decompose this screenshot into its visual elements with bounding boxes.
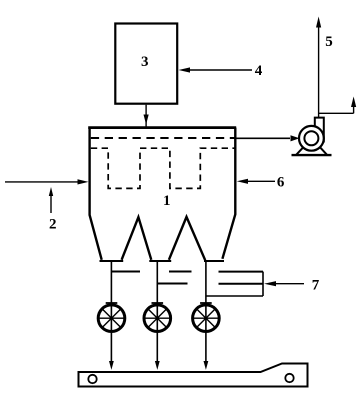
rotary valve 1 (98, 303, 125, 332)
leader arrow 7 (264, 281, 304, 286)
conveyor wheel right (285, 374, 293, 382)
box 3 (pulse control box) (115, 24, 177, 104)
conveyor wheel left (88, 375, 96, 383)
duct to 7 (rectangle) (206, 272, 263, 296)
conveyor body (79, 364, 308, 387)
rotary valve 3 (193, 303, 220, 332)
svg-text:4: 4 (255, 63, 263, 79)
leader arrow 6 (237, 179, 275, 184)
svg-text:2: 2 (49, 217, 57, 233)
wire housing to fan (236, 137, 290, 139)
arrowhead into fan (291, 135, 300, 141)
branch wire right with small arrow (319, 97, 357, 114)
dashed filter bags (square wave) (91, 148, 236, 188)
slide gate stubs pipe 2 (169, 271, 192, 273)
discharge pipe 2 (156, 261, 158, 362)
svg-text:3: 3 (141, 54, 149, 70)
drop pipe arrow 3 to conveyor (204, 361, 209, 370)
svg-text:7: 7 (312, 278, 320, 294)
inlet arrow 2 (horizontal wire into housing) (5, 179, 89, 184)
housing 1 outline (baghouse shell with three hoppers) (88, 128, 236, 261)
exhaust wire up with arrow 5 (316, 17, 321, 118)
svg-text:6: 6 (277, 174, 285, 190)
drop pipe arrow 2 to conveyor (155, 361, 160, 370)
leader arrow 2 (vertical) (49, 187, 53, 213)
dashed clean-gas plenum line (91, 137, 236, 139)
discharge pipe 1 (110, 261, 112, 362)
discharge pipe 3 (205, 261, 207, 362)
fan U (blower) (292, 118, 332, 156)
hopper outlet flange 1 (100, 260, 124, 262)
hopper outlet flange 2 (149, 260, 171, 262)
hopper outlet flange 3 (204, 260, 224, 262)
rotary valve 2 (144, 303, 171, 332)
svg-text:5: 5 (325, 34, 333, 50)
leader arrow 4 (179, 67, 253, 72)
slide gate stub pipe 1 (112, 271, 140, 273)
drop pipe arrow 1 to conveyor (109, 361, 114, 370)
svg-text:1: 1 (163, 193, 171, 209)
wire box3 to housing with down arrow (144, 105, 149, 127)
